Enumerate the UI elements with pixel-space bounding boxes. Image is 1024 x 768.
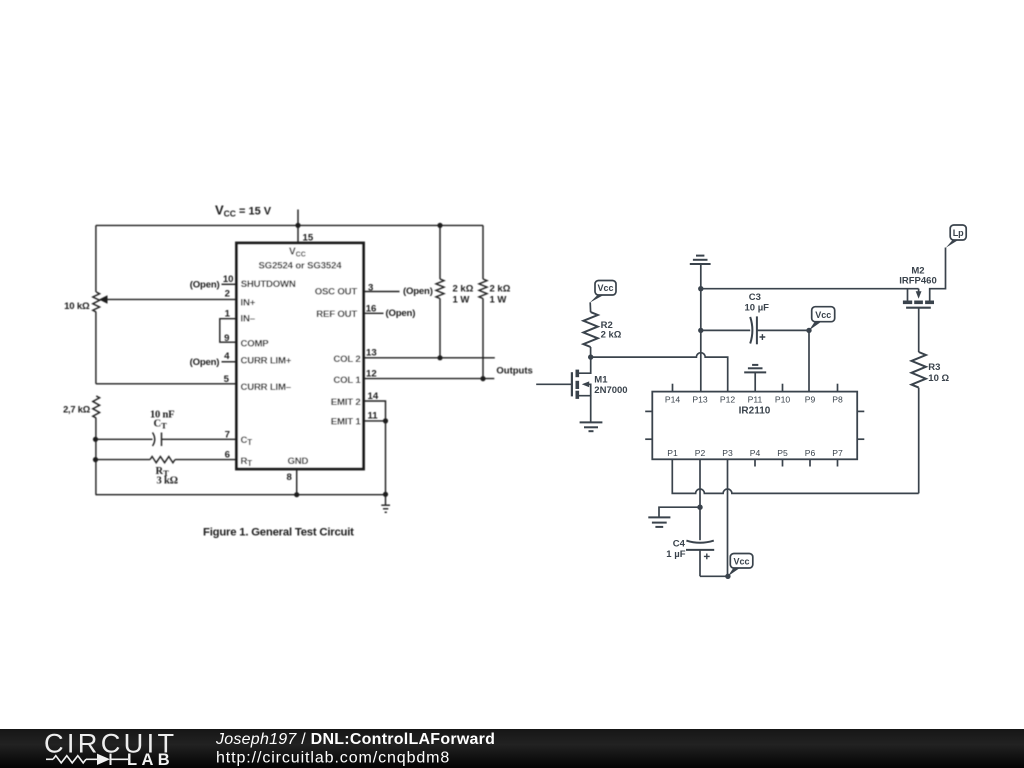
wire pin 13 COL2 output line bbox=[364, 348, 495, 359]
svg-text:1 µF: 1 µF bbox=[666, 549, 685, 560]
node junction dot RT / left rail bbox=[93, 457, 98, 462]
node junction dot pin8 / bottom rail bbox=[294, 492, 299, 497]
pin label COL 1 bbox=[333, 375, 361, 386]
svg-text:1 W: 1 W bbox=[453, 295, 470, 306]
svg-text:P5: P5 bbox=[777, 448, 788, 458]
svg-text:P13: P13 bbox=[692, 394, 708, 404]
pin 6 number bbox=[225, 449, 230, 460]
wire left rail upper bbox=[95, 225, 97, 292]
svg-text:IR2110: IR2110 bbox=[739, 405, 771, 416]
svg-text:COL 1: COL 1 bbox=[333, 375, 361, 386]
svg-text:P8: P8 bbox=[832, 394, 843, 404]
pin label CURR LIM- bbox=[241, 382, 292, 393]
pin label REF OUT bbox=[316, 309, 357, 320]
node junction dot VCC rail / 2k resistor bbox=[437, 223, 442, 228]
wire top VCC rail bbox=[96, 224, 483, 226]
capacitor C3 10 uF bbox=[701, 316, 809, 344]
pin label P11 bbox=[748, 394, 763, 404]
ground symbol figure right bbox=[381, 505, 390, 512]
footer url bbox=[216, 750, 450, 767]
svg-text:2 kΩ: 2 kΩ bbox=[453, 283, 474, 294]
svg-text:14: 14 bbox=[368, 391, 379, 402]
svg-text:IRFP460: IRFP460 bbox=[899, 275, 937, 286]
svg-text:VCC = 15 V: VCC = 15 V bbox=[215, 203, 272, 219]
pin 2 number bbox=[225, 289, 230, 300]
value label RT 3 kOhm bbox=[156, 466, 178, 486]
pin label P10 bbox=[775, 394, 791, 404]
pin 4 stub (Open) bbox=[190, 351, 237, 368]
svg-text:R3: R3 bbox=[928, 362, 940, 373]
svg-text:EMIT 1: EMIT 1 bbox=[331, 416, 362, 427]
svg-text:COMP: COMP bbox=[241, 338, 270, 349]
pin label RT bbox=[241, 456, 253, 468]
svg-text:P7: P7 bbox=[832, 448, 843, 458]
svg-text:C3: C3 bbox=[749, 292, 761, 303]
IC title SG2524 or SG3524 bbox=[259, 260, 343, 271]
svg-text:P14: P14 bbox=[665, 394, 681, 404]
ground M1 source bbox=[580, 422, 603, 431]
svg-text:REF OUT: REF OUT bbox=[316, 309, 357, 320]
svg-text:12: 12 bbox=[366, 368, 377, 379]
node junction dot R2/M1 drain bbox=[588, 354, 593, 359]
svg-text:Figure 1. General Test Circuit: Figure 1. General Test Circuit bbox=[203, 527, 354, 539]
wire pin8 GND stub bbox=[296, 469, 298, 495]
pin stub left lower bbox=[645, 438, 652, 440]
svg-text:10 µF: 10 µF bbox=[745, 303, 770, 314]
pin stub right lower bbox=[857, 438, 864, 440]
svg-text:10 kΩ: 10 kΩ bbox=[64, 301, 90, 312]
potentiometer 10 kOhm bbox=[93, 292, 237, 384]
pin 7 number bbox=[225, 429, 230, 440]
resistor R2 2 kOhm bbox=[583, 312, 597, 357]
value label 10 nF CT bbox=[150, 410, 174, 431]
pin label COMP bbox=[241, 338, 270, 349]
node junction dot P3 / Vcc bbox=[725, 574, 730, 579]
pin stub P4 bbox=[754, 459, 756, 466]
svg-text:2N7000: 2N7000 bbox=[594, 385, 627, 396]
node junction dot C3 right / Vcc flag / P9 bbox=[806, 328, 811, 333]
caption Figure 1. General Test Circuit bbox=[203, 527, 354, 539]
value label 2 kOhm 1 W (B) bbox=[490, 283, 511, 305]
wire C4 to Vcc node bbox=[700, 575, 728, 577]
pin label P5 bbox=[777, 448, 788, 458]
resistor RT 3 kOhm bbox=[96, 457, 237, 463]
svg-text:3: 3 bbox=[368, 282, 373, 293]
wire pin 14 EMIT2 bbox=[364, 391, 386, 421]
svg-text:CT: CT bbox=[154, 418, 168, 430]
node junction dot COL1 / 2k resistor B bbox=[480, 376, 485, 381]
svg-text:P3: P3 bbox=[722, 448, 733, 458]
wire ground rail down to P13 bbox=[700, 289, 702, 392]
svg-text:2 kΩ: 2 kΩ bbox=[490, 283, 511, 294]
value label M2 IRFP460 bbox=[899, 266, 937, 287]
svg-text:10 Ω: 10 Ω bbox=[928, 373, 949, 384]
pin label SHUTDOWN bbox=[241, 279, 296, 290]
svg-text:CURR LIM–: CURR LIM– bbox=[241, 382, 292, 393]
pin 10 stub (Open) bbox=[190, 274, 237, 290]
node junction dot CT / left rail bbox=[93, 437, 98, 442]
svg-text:IN–: IN– bbox=[241, 313, 256, 324]
svg-text:P2: P2 bbox=[695, 448, 706, 458]
wire pin 12 COL1 output line bbox=[364, 368, 495, 379]
flag Vcc (C4) bbox=[728, 554, 753, 577]
value label R3 10 Ohm bbox=[928, 362, 949, 384]
pin label P13 bbox=[692, 394, 708, 404]
pin 5 number bbox=[224, 374, 230, 385]
pin stub P8 bbox=[837, 384, 839, 392]
pin label P3 bbox=[722, 448, 733, 458]
svg-text:2: 2 bbox=[225, 289, 230, 300]
transistor M2 IRFP460 bbox=[903, 248, 946, 353]
node junction dot VCC rail / pin15 bbox=[295, 223, 300, 228]
value label 2 kOhm 1 W (A) bbox=[453, 283, 474, 305]
node junction dot P2 / ground / C4 bbox=[697, 505, 702, 510]
pin stub P10 bbox=[782, 384, 784, 392]
IC label IR2110 bbox=[739, 405, 771, 416]
svg-text:7: 7 bbox=[225, 429, 230, 440]
pin stub P5 bbox=[782, 459, 784, 466]
pin 8 label bbox=[287, 472, 293, 483]
svg-text:(Open): (Open) bbox=[386, 308, 416, 319]
wire bottom ground rail bbox=[96, 494, 386, 496]
wire VCC stub to pin 15 bbox=[297, 210, 299, 244]
pin label GND bbox=[288, 456, 309, 467]
svg-text:(Open): (Open) bbox=[190, 357, 220, 368]
svg-text:LAB: LAB bbox=[127, 751, 174, 768]
svg-text:EMIT 2: EMIT 2 bbox=[331, 397, 361, 408]
svg-text:COL 2: COL 2 bbox=[333, 354, 360, 365]
wire EMIT rail down to ground bbox=[385, 421, 387, 505]
svg-text:P12: P12 bbox=[720, 394, 736, 404]
svg-text:1: 1 bbox=[225, 308, 231, 319]
pin label CURR LIM+ bbox=[241, 356, 292, 367]
pin label OSC OUT bbox=[315, 287, 358, 298]
svg-text:4: 4 bbox=[224, 351, 230, 362]
node Outputs label bbox=[496, 365, 532, 376]
svg-text:5: 5 bbox=[224, 374, 230, 385]
value label C3 10 uF bbox=[745, 292, 770, 313]
flag Vcc (C3) bbox=[809, 307, 835, 331]
pin stub left upper bbox=[645, 410, 652, 412]
pin 3 stub (Open) bbox=[364, 282, 433, 297]
pin label P12 bbox=[720, 394, 736, 404]
svg-text:C4: C4 bbox=[673, 538, 686, 549]
svg-text:11: 11 bbox=[368, 410, 379, 421]
IC title VCC bbox=[289, 247, 306, 259]
pin label P8 bbox=[832, 394, 843, 404]
wire pin1-pin9 bracket bbox=[220, 308, 237, 344]
node junction dot COL2 / 2k resistor A bbox=[437, 355, 442, 360]
node junction dot EMIT1 bbox=[383, 418, 388, 423]
svg-text:Outputs: Outputs bbox=[496, 365, 532, 376]
pin 15 label bbox=[303, 233, 314, 244]
svg-text:CURR LIM+: CURR LIM+ bbox=[241, 356, 292, 367]
pin label P2 bbox=[695, 448, 706, 458]
pin label P7 bbox=[832, 448, 843, 458]
svg-text:16: 16 bbox=[366, 303, 377, 314]
pin label P6 bbox=[805, 448, 816, 458]
svg-text:2,7 kΩ: 2,7 kΩ bbox=[63, 405, 91, 415]
svg-text:13: 13 bbox=[366, 348, 377, 359]
svg-text:http://circuitlab.com/cnqbdm8: http://circuitlab.com/cnqbdm8 bbox=[216, 750, 450, 767]
wire P2 down bbox=[699, 459, 701, 507]
resistor 2,7 kOhm bbox=[93, 396, 100, 495]
resistor 2 kOhm 1 W (A) bbox=[436, 225, 444, 357]
svg-text:P4: P4 bbox=[750, 448, 761, 458]
svg-text:SHUTDOWN: SHUTDOWN bbox=[241, 279, 296, 290]
pin label P1 bbox=[667, 448, 678, 458]
IC U2 IR2110 box bbox=[652, 392, 857, 460]
value label R2 2 kOhm bbox=[601, 320, 622, 340]
value label M1 2N7000 bbox=[594, 374, 627, 396]
wire pin 11 EMIT1 bbox=[364, 410, 386, 421]
node junction dot EMIT rail / bottom rail bbox=[383, 492, 388, 497]
pin label CT bbox=[241, 435, 253, 447]
wire M1 drain to IR2110 P12 (hop over ground rail) bbox=[591, 353, 728, 392]
pin label P14 bbox=[665, 394, 681, 404]
pin label IN+ bbox=[241, 298, 256, 309]
ground P11 (inverted) bbox=[744, 365, 766, 392]
svg-text:9: 9 bbox=[224, 333, 229, 344]
CircuitLab logo resistor-diode glyph and LAB bbox=[46, 754, 128, 765]
svg-text:Lp: Lp bbox=[953, 228, 964, 238]
capacitor C4 1 uF bbox=[686, 507, 714, 576]
svg-text:Vcc: Vcc bbox=[597, 283, 613, 293]
svg-text:SG2524 or SG3524: SG2524 or SG3524 bbox=[259, 260, 343, 271]
value label 10 kOhm bbox=[64, 301, 90, 312]
svg-text:GND: GND bbox=[288, 456, 309, 467]
svg-text:P11: P11 bbox=[748, 394, 763, 404]
wire P3 down to Vcc node bbox=[727, 459, 729, 576]
svg-text:P10: P10 bbox=[775, 394, 791, 404]
pin stub P7 bbox=[837, 459, 839, 466]
wire P1 to bottom rail (hops over P2,P3) bbox=[672, 459, 918, 493]
svg-text:Vcc: Vcc bbox=[733, 556, 749, 566]
svg-text:3 kΩ: 3 kΩ bbox=[157, 475, 178, 486]
wire ground rail to M2 drain bbox=[701, 288, 919, 290]
svg-text:Joseph197 / DNL:ControlLAForwa: Joseph197 / DNL:ControlLAForward bbox=[215, 731, 495, 748]
pin label EMIT 2 bbox=[331, 397, 361, 408]
wire P9 to C3 node bbox=[808, 330, 810, 391]
pin stub P6 bbox=[809, 459, 811, 466]
pin stub P14 bbox=[672, 384, 674, 392]
svg-text:1 W: 1 W bbox=[490, 295, 507, 306]
svg-text:Vcc: Vcc bbox=[815, 310, 831, 320]
ground P2 (left) bbox=[648, 507, 700, 527]
svg-text:P1: P1 bbox=[667, 448, 678, 458]
svg-text:IN+: IN+ bbox=[241, 298, 256, 309]
resistor 2 kOhm 1 W (B) bbox=[479, 225, 487, 378]
svg-text:(Open): (Open) bbox=[190, 280, 220, 291]
flag Vcc (R2 top) bbox=[590, 281, 616, 303]
pin label P9 bbox=[805, 394, 816, 404]
pin label IN- bbox=[241, 313, 256, 324]
pin label EMIT 1 bbox=[331, 416, 362, 427]
CircuitLab logo CIRCUIT text bbox=[44, 728, 177, 759]
node junction dot ground rail / M2 rail bbox=[698, 286, 703, 291]
wire pin5 CURR LIM- line bbox=[96, 383, 237, 385]
svg-text:10: 10 bbox=[223, 274, 234, 285]
pin 16 stub (Open) bbox=[364, 303, 416, 319]
svg-text:M1: M1 bbox=[594, 374, 608, 385]
footer bar bbox=[0, 729, 1024, 768]
svg-text:OSC OUT: OSC OUT bbox=[315, 287, 358, 298]
svg-text:P9: P9 bbox=[805, 394, 816, 404]
svg-text:6: 6 bbox=[225, 449, 230, 460]
wire Vcc flag to R2 bbox=[589, 302, 591, 312]
svg-text:(Open): (Open) bbox=[403, 286, 433, 297]
transistor M1 2N7000 bbox=[536, 357, 591, 422]
svg-text:8: 8 bbox=[287, 472, 293, 483]
value label C4 1 uF bbox=[666, 538, 685, 560]
pin stub right upper bbox=[857, 410, 864, 412]
op-amp IC U1 SG2524 box bbox=[237, 243, 364, 469]
value label 2,7 kOhm bbox=[63, 405, 91, 415]
pin label P4 bbox=[750, 448, 761, 458]
flag Lp bbox=[946, 225, 966, 248]
capacitor CT 10 nF bbox=[96, 433, 237, 447]
svg-text:P6: P6 bbox=[805, 448, 816, 458]
resistor R3 10 Ohm bbox=[912, 352, 926, 493]
pin label COL 2 bbox=[333, 354, 360, 365]
ground top (inverted) bbox=[690, 256, 711, 289]
node VCC supply label bbox=[215, 203, 272, 219]
node junction dot C3 left bbox=[698, 328, 703, 333]
svg-text:2 kΩ: 2 kΩ bbox=[601, 329, 622, 340]
footer title Joseph197 / DNL:ControlLAForward bbox=[215, 731, 495, 748]
